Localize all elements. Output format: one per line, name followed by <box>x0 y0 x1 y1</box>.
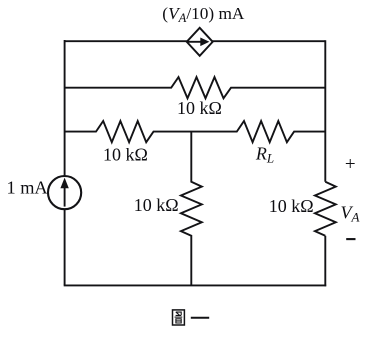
svg-text:10 kΩ: 10 kΩ <box>177 98 222 118</box>
svg-text:10 kΩ: 10 kΩ <box>269 196 314 216</box>
svg-text:10 kΩ: 10 kΩ <box>103 145 148 165</box>
svg-text:1 mA: 1 mA <box>7 178 49 198</box>
svg-text:(VA/10) mA: (VA/10) mA <box>162 4 245 25</box>
svg-text:VA: VA <box>341 202 360 224</box>
svg-text:10 kΩ: 10 kΩ <box>134 195 179 215</box>
svg-text:RL: RL <box>255 144 274 166</box>
svg-text:+: + <box>345 154 356 175</box>
